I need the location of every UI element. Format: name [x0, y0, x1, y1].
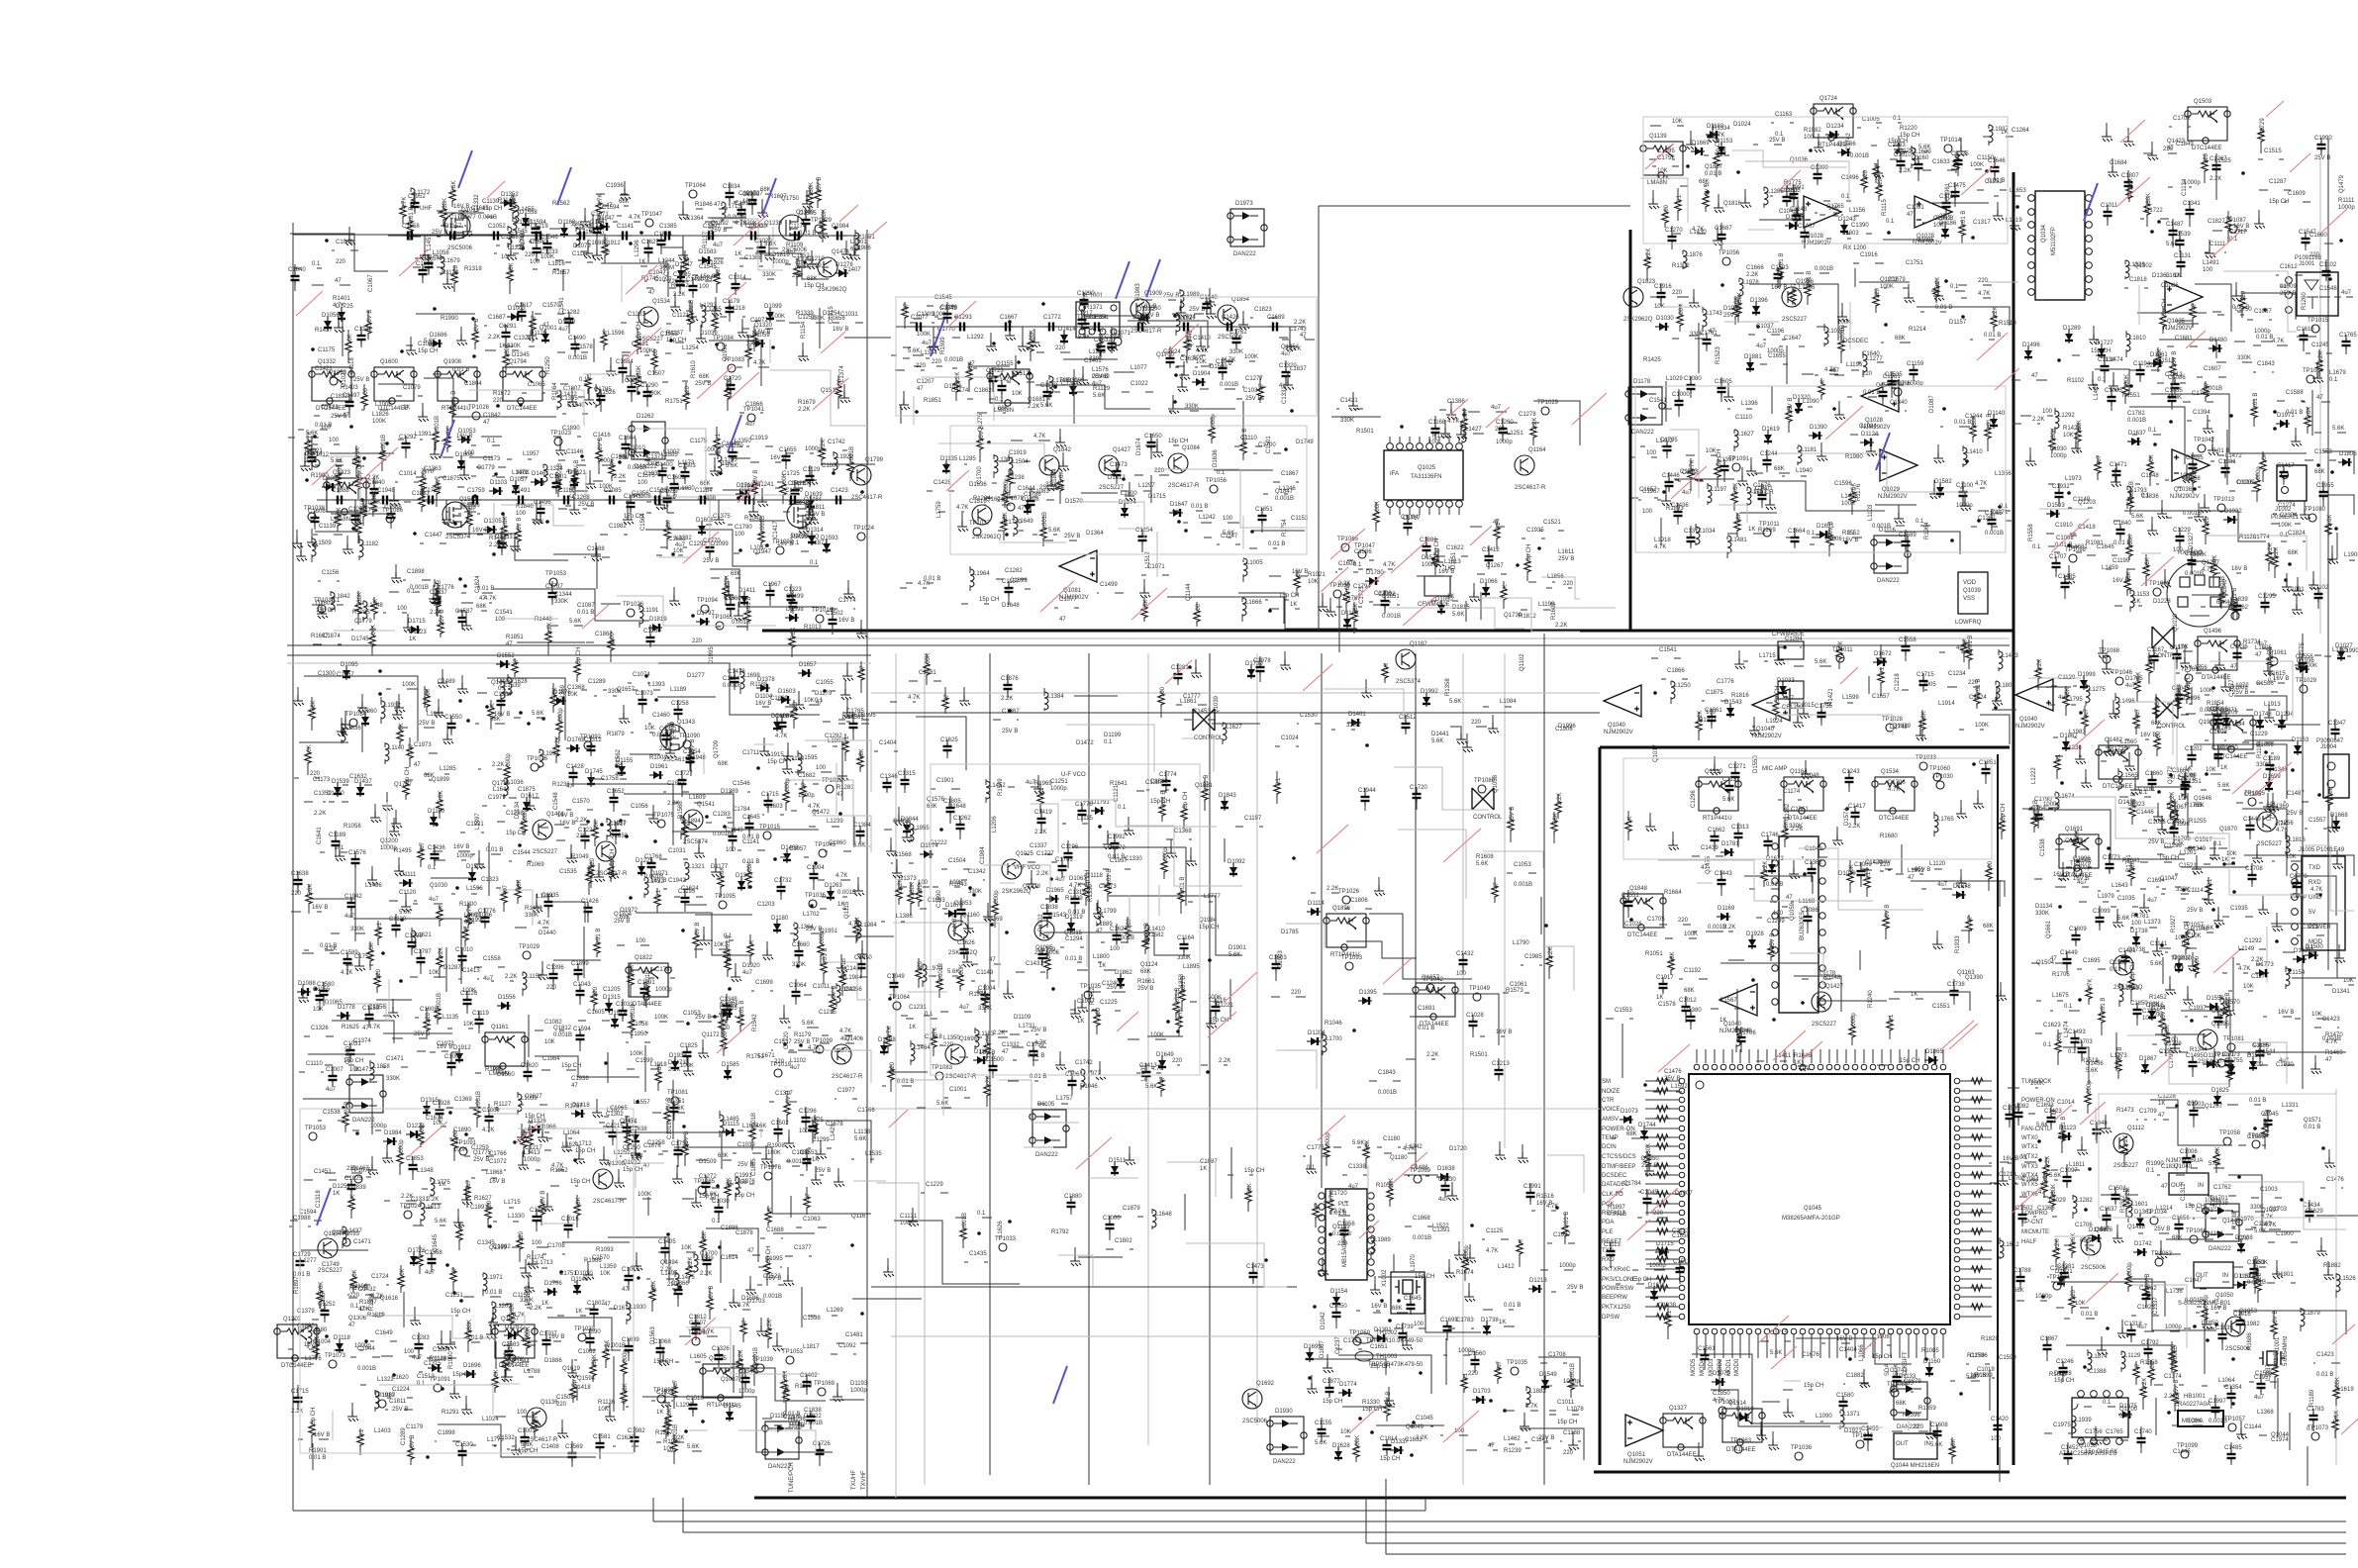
- svg-text:C1612: C1612: [2280, 264, 2298, 270]
- svg-text:10K: 10K: [1672, 119, 1683, 125]
- capacitor C1548: [1919, 676, 1928, 690]
- ground: [1960, 500, 1971, 511]
- svg-text:2.2K: 2.2K: [492, 762, 504, 768]
- node: [1662, 490, 1666, 494]
- svg-text:0.01 B: 0.01 B: [1065, 956, 1082, 962]
- resistor R1624: [1219, 537, 1221, 539]
- capacitor C1176: [1773, 339, 1775, 341]
- svg-text:TP1035: TP1035: [1507, 1360, 1528, 1366]
- resistor R1693: [437, 953, 442, 969]
- svg-text:C1487: C1487: [2287, 791, 2305, 797]
- diode D1138: [507, 313, 521, 321]
- ground: [2254, 218, 2265, 229]
- svg-text:DTA144EE: DTA144EE: [1667, 1452, 1697, 1458]
- svg-text:C1224: C1224: [392, 1387, 410, 1393]
- capacitor C1562: [2151, 218, 2153, 220]
- svg-text:D1177: D1177: [2204, 1053, 2221, 1059]
- svg-text:47: 47: [1002, 1049, 1009, 1055]
- svg-text:R1129: R1129: [1093, 386, 1111, 392]
- test point TP1070: [657, 820, 665, 828]
- resistor R1967: [696, 280, 698, 282]
- svg-text:C1637: C1637: [2100, 1207, 2117, 1213]
- svg-text:R1607: R1607: [311, 634, 329, 639]
- svg-text:15p CH: 15p CH: [570, 1179, 590, 1185]
- svg-text:VHF: VHF: [424, 469, 436, 475]
- svg-text:C1024: C1024: [1281, 735, 1299, 741]
- svg-text:C1804: C1804: [464, 381, 482, 387]
- svg-text:C1259: C1259: [471, 1145, 489, 1151]
- resistor R1643: [360, 503, 366, 519]
- inductor L1656: [359, 539, 363, 557]
- resistor R1537: [601, 332, 607, 347]
- node: [2193, 487, 2197, 491]
- ground: [2291, 436, 2302, 446]
- svg-text:C1454: C1454: [683, 749, 701, 755]
- node: [311, 347, 315, 351]
- svg-text:0.001B: 0.001B: [607, 1343, 626, 1349]
- svg-text:C1550: C1550: [444, 715, 462, 721]
- resistor R1903: [308, 267, 310, 269]
- svg-text:L1592: L1592: [1671, 1084, 1688, 1090]
- diode D1384: [1746, 358, 1754, 372]
- svg-text:R1081: R1081: [2086, 540, 2104, 546]
- svg-text:C1471: C1471: [353, 1239, 371, 1245]
- inductor L1592: [1795, 906, 1797, 908]
- resistor R1355: [459, 1028, 461, 1029]
- svg-text:25V B: 25V B: [815, 1168, 831, 1174]
- svg-text:100: 100: [329, 438, 340, 443]
- node: [1803, 872, 1807, 876]
- capacitor C1861: [351, 854, 360, 868]
- resistor R1481: [325, 443, 327, 445]
- capacitor C1045: [320, 986, 329, 1000]
- node: [737, 496, 740, 500]
- inductor L1412: [441, 256, 444, 274]
- node: [615, 764, 619, 768]
- svg-text:L1978: L1978: [1742, 280, 1759, 286]
- inductor L1786: [1780, 195, 1782, 197]
- svg-text:C1153: C1153: [1291, 516, 1309, 522]
- ground: [1027, 878, 1037, 889]
- svg-text:R1657: R1657: [552, 270, 570, 276]
- capacitor C1205: [834, 449, 835, 451]
- transistor Q1214: [2198, 1029, 2217, 1049]
- ground: [1789, 868, 1800, 879]
- capacitor C1080: [761, 990, 763, 992]
- svg-text:C1651: C1651: [1370, 1344, 1388, 1350]
- svg-text:TP1093: TP1093: [1341, 955, 1363, 961]
- diode D1741: [1706, 131, 1719, 139]
- svg-text:L1342: L1342: [1406, 1144, 1423, 1150]
- svg-text:D1639: D1639: [805, 492, 823, 498]
- resistor R1801: [804, 810, 806, 812]
- wire: [308, 426, 875, 589]
- svg-text:68K: 68K: [620, 915, 631, 921]
- capacitor C1685: [1942, 198, 1951, 212]
- resistor R1853: [1194, 608, 1200, 624]
- inductor L1809: [654, 265, 656, 267]
- wire harness 2: [653, 1520, 2346, 1522]
- node: [838, 812, 842, 816]
- svg-text:NOIZE: NOIZE: [1602, 1089, 1620, 1095]
- node: [545, 520, 549, 524]
- ground: [392, 709, 403, 720]
- capacitor C1621: [1665, 657, 1667, 659]
- svg-text:D1781: D1781: [1721, 841, 1739, 847]
- svg-text:D1199: D1199: [1104, 733, 1122, 738]
- node: [653, 839, 657, 843]
- capacitor C1228: [757, 243, 766, 256]
- svg-text:L1984: L1984: [845, 975, 862, 981]
- svg-text:L1509: L1509: [315, 540, 332, 546]
- svg-text:0.001B: 0.001B: [944, 357, 963, 363]
- svg-text:0.1: 0.1: [738, 211, 747, 217]
- svg-text:0.1: 0.1: [2032, 544, 2041, 550]
- svg-text:0.1: 0.1: [1847, 531, 1856, 537]
- svg-text:L1775: L1775: [487, 1437, 504, 1443]
- resistor R1169: [1287, 996, 1289, 998]
- resistor R1248: [424, 693, 430, 709]
- svg-text:100: 100: [517, 1410, 528, 1416]
- svg-text:0.001B: 0.001B: [2209, 1419, 2227, 1424]
- svg-text:16V B: 16V B: [1371, 1304, 1387, 1310]
- wire horizontal interconnects mid: [871, 692, 1600, 694]
- svg-text:C1005: C1005: [1862, 117, 1880, 123]
- svg-text:Q1750: Q1750: [781, 196, 800, 202]
- resistor R1390: [1028, 338, 1033, 353]
- capacitor C1719: [418, 501, 420, 503]
- svg-text:L1348: L1348: [417, 1168, 434, 1174]
- svg-text:5.6K: 5.6K: [1431, 738, 1443, 744]
- svg-text:1K: 1K: [656, 1410, 663, 1416]
- svg-text:4u7: 4u7: [840, 1036, 851, 1042]
- transistor Q1044: [2257, 812, 2277, 832]
- transistor Q1883: [442, 502, 468, 528]
- resistor R1739: [435, 593, 441, 609]
- capacitor C1521: [548, 313, 550, 315]
- capacitor C1123: [1027, 496, 1035, 510]
- capacitor C1336: [413, 579, 415, 581]
- svg-text:R1240: R1240: [1868, 990, 1874, 1008]
- transistor Q1498: [1168, 453, 1188, 473]
- op-amp Q1040: [1752, 689, 1790, 721]
- ground: [461, 620, 472, 631]
- svg-text:0.01 B: 0.01 B: [1954, 420, 1971, 426]
- svg-text:D1744: D1744: [1638, 1123, 1656, 1128]
- svg-text:C1720: C1720: [724, 376, 741, 382]
- svg-text:R1542: R1542: [752, 1014, 758, 1031]
- svg-text:L1103: L1103: [1868, 504, 1874, 521]
- svg-text:4u7: 4u7: [558, 327, 569, 333]
- svg-text:R1501: R1501: [1356, 429, 1374, 435]
- svg-text:100K: 100K: [2030, 1081, 2044, 1087]
- capacitor C1652: [1621, 1018, 1622, 1020]
- svg-text:L1743: L1743: [1706, 311, 1722, 317]
- svg-text:C1891: C1891: [470, 1205, 488, 1211]
- resistor R1287: [1786, 408, 1792, 424]
- capacitor C1346: [644, 244, 653, 257]
- resistor R1632: [1734, 517, 1740, 533]
- ground: [591, 550, 602, 561]
- resistor R1458: [488, 1072, 490, 1074]
- ground: [2194, 511, 2205, 522]
- svg-text:C1622: C1622: [1446, 545, 1464, 551]
- capacitor C1922: [1030, 1046, 1038, 1060]
- svg-text:L1331: L1331: [2282, 1103, 2299, 1109]
- svg-text:C1876: C1876: [1001, 676, 1019, 682]
- svg-text:L1182: L1182: [362, 541, 379, 547]
- svg-text:C1505: C1505: [799, 211, 817, 217]
- capacitor C1723: [1199, 345, 1201, 347]
- ground: [1876, 652, 1887, 663]
- svg-text:D1390: D1390: [1810, 425, 1827, 431]
- ground: [748, 506, 759, 517]
- capacitor C1563: [1038, 949, 1047, 963]
- test point TP1093: [1473, 993, 1481, 1001]
- svg-text:4u7: 4u7: [1055, 877, 1066, 883]
- node: [458, 577, 462, 581]
- diode D1105: [2223, 516, 2237, 524]
- svg-text:NJM2902V: NJM2902V: [1604, 730, 1633, 735]
- resistor R1579: [687, 310, 693, 326]
- svg-text:0.001B: 0.001B: [2127, 418, 2146, 424]
- node: [771, 345, 775, 349]
- svg-text:DAN222: DAN222: [1035, 1152, 1058, 1158]
- svg-text:C1608: C1608: [308, 509, 326, 515]
- capacitor C1971: [1814, 169, 1822, 183]
- capacitor C1953: [392, 921, 401, 934]
- svg-text:1K: 1K: [2158, 1101, 2165, 1107]
- svg-text:L1972: L1972: [1084, 1071, 1101, 1077]
- resistor R1128: [2252, 341, 2254, 343]
- resistor R1908: [2176, 479, 2178, 481]
- svg-text:C1985: C1985: [1524, 954, 1542, 960]
- resistor R1749: [1986, 865, 1992, 881]
- transistor Q1740: [1515, 455, 1534, 475]
- svg-text:1000p: 1000p: [1767, 348, 1784, 354]
- svg-text:Q1040: Q1040: [1608, 723, 1626, 729]
- capacitor C1378: [294, 875, 303, 889]
- ground: [798, 350, 809, 361]
- inductor L1296: [923, 964, 927, 982]
- svg-text:0.1: 0.1: [2148, 428, 2157, 434]
- svg-text:Q1646: Q1646: [2194, 796, 2212, 802]
- svg-text:15p CH: 15p CH: [979, 597, 999, 603]
- node: [1008, 709, 1012, 713]
- svg-text:25V B: 25V B: [1723, 313, 1739, 319]
- svg-text:C1449: C1449: [2243, 817, 2261, 823]
- resistor R1784: [1105, 880, 1111, 896]
- svg-text:L1156: L1156: [1849, 208, 1866, 214]
- resistor R1244: [1843, 537, 1845, 539]
- node: [619, 819, 623, 823]
- svg-text:Q1161: Q1161: [491, 1025, 509, 1030]
- resistor R1367: [1744, 533, 1746, 535]
- resistor R1605: [2143, 562, 2149, 578]
- wire digital block left border: [1598, 747, 1601, 1465]
- resistor R1975: [1487, 411, 1489, 413]
- svg-text:D1411: D1411: [738, 588, 756, 594]
- svg-text:220: 220: [1672, 290, 1683, 296]
- resistor R1728: [553, 742, 559, 758]
- capacitor C1359: [885, 750, 887, 752]
- ground: [619, 713, 630, 724]
- capacitor C1691: [597, 391, 606, 405]
- inductor L1139: [2067, 551, 2069, 553]
- capacitor C1655: [502, 328, 511, 342]
- svg-text:C1369: C1369: [454, 1097, 472, 1103]
- svg-text:J1005 P1091E49: J1005 P1091E49: [2299, 847, 2345, 853]
- svg-text:1K: 1K: [297, 1328, 304, 1334]
- svg-text:10K: 10K: [2191, 933, 2202, 939]
- svg-text:C1842: C1842: [483, 413, 501, 419]
- connector J1005 P1091E49: [2302, 856, 2345, 950]
- capacitor C1550: [1492, 573, 1494, 575]
- svg-text:L1005: L1005: [1246, 560, 1263, 566]
- ground: [1737, 475, 1748, 486]
- node: [1845, 807, 1849, 811]
- svg-text:C1085: C1085: [2165, 388, 2183, 394]
- resistor R1112: [486, 723, 488, 725]
- capacitor C1340: [601, 641, 603, 643]
- capacitor C1448: [674, 858, 676, 860]
- svg-text:TP1042: TP1042: [1423, 977, 1444, 983]
- svg-text:C1691: C1691: [1418, 1006, 1435, 1012]
- svg-text:25V B: 25V B: [1107, 985, 1123, 991]
- svg-text:330K: 330K: [1737, 292, 1743, 306]
- capacitor C1234: [573, 413, 575, 415]
- node: [378, 669, 382, 673]
- ground: [2147, 149, 2158, 160]
- svg-text:D1862: D1862: [1115, 970, 1132, 976]
- resistor R1251: [393, 612, 395, 614]
- resistor R1023: [1849, 489, 1855, 505]
- svg-text:C1548: C1548: [553, 792, 559, 810]
- wire: [938, 443, 1307, 577]
- resistor R1823: [1094, 1012, 1100, 1028]
- svg-text:4u7: 4u7: [745, 422, 756, 428]
- resistor R1413: [1974, 297, 1976, 299]
- ground: [1152, 446, 1163, 457]
- svg-text:Q1698: Q1698: [959, 1036, 978, 1042]
- node: [381, 951, 385, 955]
- svg-text:R1879: R1879: [607, 732, 625, 737]
- svg-text:C1002: C1002: [444, 1054, 462, 1060]
- svg-text:C1917: C1917: [1656, 975, 1674, 981]
- svg-text:R1734: R1734: [2243, 639, 2261, 645]
- resistor R1906: [588, 862, 594, 878]
- svg-text:16V B: 16V B: [2278, 1010, 2294, 1016]
- capacitor C1858: [1725, 1008, 1727, 1010]
- svg-text:25V B: 25V B: [1788, 398, 1794, 414]
- wire: [1651, 636, 2016, 744]
- resistor R1073: [1911, 873, 1913, 875]
- svg-text:C1290: C1290: [640, 383, 658, 389]
- svg-text:0.1: 0.1: [925, 1012, 933, 1018]
- capacitor C1357: [2242, 490, 2244, 492]
- ground: [694, 847, 705, 858]
- svg-text:C1825: C1825: [680, 1043, 698, 1049]
- inductor L1971: [462, 893, 464, 895]
- svg-text:C1581: C1581: [593, 1434, 611, 1440]
- svg-text:C1408: C1408: [541, 1444, 559, 1450]
- svg-text:15p CH: 15p CH: [525, 1114, 544, 1120]
- svg-text:0.1: 0.1: [417, 1381, 426, 1387]
- resistor R1978: [1838, 338, 1844, 353]
- svg-text:C1028: C1028: [1466, 1013, 1484, 1019]
- capacitor C1246: [357, 331, 366, 344]
- capacitor C1717: [1720, 461, 1729, 475]
- svg-text:D1039: D1039: [700, 331, 718, 337]
- svg-text:C1935: C1935: [2230, 906, 2248, 912]
- svg-text:C1045: C1045: [1640, 1190, 1658, 1196]
- wire: [1772, 708, 1893, 735]
- svg-text:C1225: C1225: [1100, 1000, 1118, 1006]
- svg-text:C1992: C1992: [493, 1244, 511, 1250]
- svg-text:5.6K: 5.6K: [1048, 528, 1060, 534]
- capacitor C1437: [1138, 532, 1147, 545]
- resistor R1491: [434, 480, 440, 496]
- capacitor C1315: [756, 445, 758, 447]
- svg-text:Q1239: Q1239: [764, 221, 783, 227]
- svg-text:R1154: R1154: [801, 321, 807, 339]
- svg-text:D1556: D1556: [498, 995, 516, 1001]
- resistor R1692: [691, 1021, 693, 1023]
- capacitor C1930: [1758, 490, 1767, 504]
- svg-text:C1338: C1338: [1348, 1164, 1366, 1170]
- svg-text:0.1: 0.1: [2329, 377, 2338, 383]
- svg-text:C1629: C1629: [2306, 1209, 2323, 1215]
- svg-text:L1572: L1572: [835, 1048, 851, 1054]
- svg-text:5.6K: 5.6K: [435, 1219, 446, 1225]
- capacitor C1106: [1360, 559, 1362, 561]
- node: [968, 886, 972, 890]
- ground: [1645, 821, 1656, 832]
- svg-text:PKTXRxIC: PKTXRxIC: [1602, 1267, 1631, 1273]
- svg-text:C1991: C1991: [1523, 1184, 1541, 1190]
- svg-text:C1035: C1035: [2117, 896, 2135, 902]
- diode D1873: [356, 783, 364, 797]
- wire left section bottom rail: [293, 1510, 628, 1512]
- resistor R1970: [1873, 292, 1879, 308]
- diode D1155: [468, 868, 476, 882]
- svg-text:C1609: C1609: [2288, 191, 2306, 197]
- svg-text:C1935: C1935: [541, 893, 559, 899]
- svg-text:L1486: L1486: [365, 883, 382, 889]
- ground: [1077, 1002, 1088, 1013]
- node: [715, 343, 719, 346]
- svg-text:D1720: D1720: [1449, 1146, 1467, 1152]
- svg-text:C1160: C1160: [1912, 155, 1929, 161]
- svg-text:5.6K: 5.6K: [2086, 1068, 2098, 1074]
- transistor Q1241: [1396, 649, 1416, 669]
- node: [2273, 410, 2277, 414]
- ground: [631, 446, 641, 457]
- svg-text:220: 220: [1968, 680, 1979, 686]
- svg-text:C1567: C1567: [1719, 998, 1737, 1004]
- test point TP1010: [1478, 785, 1486, 793]
- svg-text:R1396: R1396: [1903, 1413, 1920, 1419]
- node: [435, 823, 439, 827]
- svg-text:R1021: R1021: [1308, 572, 1326, 578]
- svg-text:0.01 B: 0.01 B: [2113, 540, 2130, 546]
- transistor Q1342: [948, 921, 968, 940]
- capacitor C1122: [674, 705, 683, 719]
- svg-text:16V B: 16V B: [557, 813, 573, 819]
- svg-text:D1619: D1619: [1762, 427, 1780, 433]
- resistor R1476: [435, 1006, 441, 1022]
- capacitor C1431: [546, 259, 548, 261]
